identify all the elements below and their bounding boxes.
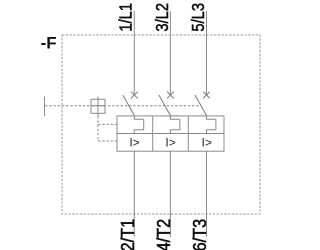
svg-text:-F: -F bbox=[41, 34, 57, 53]
svg-text:I>: I> bbox=[165, 136, 175, 150]
svg-text:6/T3: 6/T3 bbox=[189, 219, 210, 250]
svg-text:3/L2: 3/L2 bbox=[153, 3, 172, 32]
svg-text:I>: I> bbox=[202, 136, 212, 150]
svg-text:1/L1: 1/L1 bbox=[117, 3, 136, 32]
svg-text:5/L3: 5/L3 bbox=[189, 3, 208, 32]
svg-text:4/T2: 4/T2 bbox=[153, 219, 174, 250]
svg-text:I>: I> bbox=[129, 136, 139, 150]
svg-text:2/T1: 2/T1 bbox=[117, 219, 138, 250]
